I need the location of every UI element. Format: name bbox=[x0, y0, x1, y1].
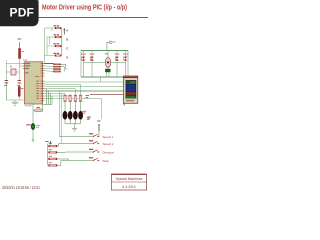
resistor R3 (to net B) bbox=[50, 34, 63, 38]
sheet title underline bbox=[39, 17, 149, 18]
U1 left pins bbox=[23, 64, 25, 69]
switch row wire 1 bbox=[59, 136, 92, 138]
resistor R17 bbox=[49, 162, 58, 166]
U1 right pins bbox=[43, 64, 45, 101]
bus wire RD7 (to switch rail) bbox=[44, 98, 101, 119]
net flag rail bbox=[61, 28, 63, 56]
LED labels bbox=[82, 111, 89, 120]
switch SW4 bbox=[89, 157, 100, 161]
switch row wire 4 bbox=[61, 160, 92, 162]
resistor R16 bbox=[49, 156, 58, 160]
bus wire RD1 (to R13 top) bbox=[44, 84, 80, 95]
crystal loop wires bbox=[6, 60, 24, 102]
motor M1 bbox=[105, 51, 111, 68]
svg-text:Motor Driver using PIC (i/p -: Motor Driver using PIC (i/p - o/p) bbox=[42, 5, 127, 12]
resistor-to-row jog wires bbox=[57, 144, 69, 166]
bus wire RD4 (to LCD EN, dark) bbox=[44, 90, 123, 92]
transistor Q1 bbox=[81, 54, 86, 61]
svg-text:B: B bbox=[66, 38, 68, 42]
switch row wire 2 bbox=[58, 143, 92, 145]
crystal X1 bbox=[6, 66, 19, 76]
svg-text:Special Machines: Special Machines bbox=[116, 177, 143, 181]
LED D5 bbox=[78, 111, 82, 119]
svg-text:D: D bbox=[66, 56, 68, 60]
wire to switch col 1 bbox=[58, 91, 60, 137]
LED D1 (green) bbox=[26, 123, 40, 129]
LED D3 bbox=[68, 111, 72, 119]
resistor R12 bbox=[74, 95, 77, 102]
wires from A-D resistors down to U1 pins bbox=[45, 28, 53, 64]
bus wire RD3 (to R12 top) bbox=[44, 89, 75, 96]
bus wire RD0 (to LCD D4) bbox=[44, 81, 123, 83]
svg-text:PDF: PDF bbox=[9, 6, 34, 20]
PDF badge bbox=[0, 0, 39, 26]
power feed / resistor above (VDD) bbox=[18, 39, 24, 64]
ground (crystal) bbox=[11, 102, 18, 105]
LED D4 bbox=[73, 111, 77, 119]
wires U1 pins to resistor pack bbox=[44, 64, 53, 72]
transistor Q3 bbox=[115, 54, 120, 61]
transistor Q2 bbox=[90, 54, 95, 61]
svg-text:Speed 2: Speed 2 bbox=[103, 142, 114, 146]
svg-text:Stop: Stop bbox=[103, 159, 110, 163]
net stub labels (near column) bbox=[88, 117, 91, 120]
svg-text:U1: U1 bbox=[24, 58, 28, 62]
U1 right pin numbers bbox=[35, 63, 42, 101]
LCD1 display bbox=[123, 76, 138, 105]
title block bbox=[112, 174, 147, 190]
wire hooks right of resistor pack bbox=[61, 64, 68, 71]
bus wire RD2 (to LCD D5) bbox=[44, 86, 123, 88]
switch SW2 bbox=[89, 140, 100, 144]
microcontroller U1 bbox=[24, 58, 43, 108]
svg-text:PIC16F: PIC16F bbox=[25, 106, 33, 108]
wire to switch col 2 bbox=[60, 94, 62, 144]
svg-text:Speed 1: Speed 1 bbox=[103, 135, 114, 139]
bus wire RD6 (to R11 top) bbox=[44, 94, 70, 97]
resistor R1 (reset pull) bbox=[18, 87, 23, 97]
resistor R14 bbox=[49, 143, 58, 147]
capacitor C1 bbox=[4, 80, 8, 86]
resistor R5 (to net D) bbox=[45, 53, 63, 57]
+5V arrow (switch rail) bbox=[97, 121, 101, 137]
resistor R2 (to net A) bbox=[52, 25, 62, 29]
capacitor C2 bbox=[17, 80, 21, 86]
resistor R4 (to net C) bbox=[47, 43, 62, 47]
svg-text:Direction: Direction bbox=[103, 151, 115, 155]
H-bridge frame wires bbox=[81, 51, 128, 78]
bus wire (LCD RS, maroon) bbox=[90, 93, 123, 95]
+5V arrow (near net A) bbox=[63, 28, 65, 35]
switch SW3 bbox=[89, 149, 100, 153]
resistor R11 bbox=[69, 95, 72, 102]
resistor R15 bbox=[49, 149, 58, 153]
svg-text:25/10/21 19:19:56 / 12:51: 25/10/21 19:19:56 / 12:51 bbox=[2, 185, 40, 190]
LED cathode bus wire bbox=[65, 120, 81, 128]
wire bridge sense tap bbox=[100, 77, 102, 82]
switch SW1 bbox=[89, 133, 100, 137]
wire below U1 (RC7 down) bbox=[32, 104, 34, 140]
terminal dot (below LED D1) bbox=[32, 139, 34, 141]
diode D6 (below U1) bbox=[33, 107, 43, 112]
power terminal (12V) bbox=[107, 41, 116, 51]
bus wire RD5 (to R10 top) bbox=[44, 94, 65, 96]
ground (LED bus) bbox=[72, 128, 77, 131]
transistor Q4 bbox=[123, 54, 128, 61]
resistor pack R6-R9 (base drive) bbox=[54, 64, 61, 72]
U1 left pin labels bbox=[25, 63, 30, 73]
switch row wire 3 bbox=[65, 151, 92, 153]
wires resistors to LEDs bbox=[65, 102, 81, 113]
optocoupler block (below motor) bbox=[105, 67, 110, 77]
resistor R10 bbox=[64, 95, 67, 102]
resistor R13 bbox=[79, 95, 89, 102]
pull-down resistor stack left rail bbox=[45, 141, 51, 166]
nested bus drop wires (left) bbox=[43, 89, 53, 111]
LED D2 bbox=[63, 111, 67, 119]
svg-text:6-3-2014: 6-3-2014 bbox=[123, 185, 136, 189]
